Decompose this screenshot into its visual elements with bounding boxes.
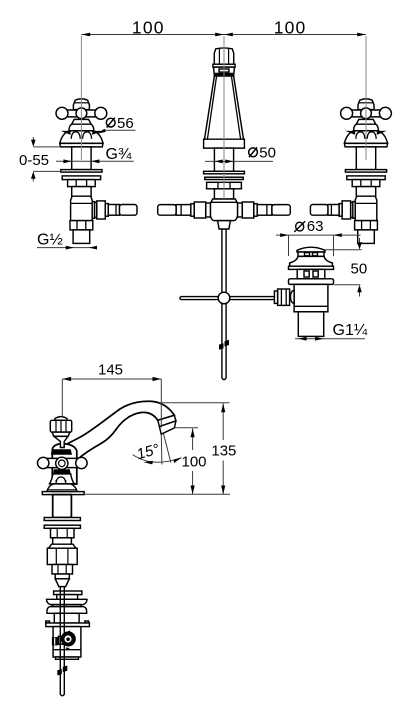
deck extension line xyxy=(84,493,230,495)
label diameter 56 xyxy=(97,115,136,134)
handle left ball xyxy=(38,457,49,468)
tee right arm pipe xyxy=(257,205,272,216)
label G1/2 xyxy=(37,232,97,250)
drain flange lower lip xyxy=(47,607,87,614)
drain plug cylinder xyxy=(57,595,78,600)
angle 15 degrees reference line xyxy=(160,435,163,465)
hex coupling chamfer xyxy=(49,544,76,548)
drain plug cap xyxy=(297,247,325,252)
drain tube xyxy=(294,284,328,311)
pivot ring bottom lug xyxy=(66,648,70,651)
tee body xyxy=(210,199,237,221)
tee right arm washer xyxy=(238,203,243,217)
tee right arm neck xyxy=(254,204,257,216)
threaded shank below deck xyxy=(53,495,72,518)
spout body flare xyxy=(205,76,244,139)
spout tip cap xyxy=(214,48,233,64)
tee left arm nut xyxy=(194,202,206,218)
drain disc 1 xyxy=(289,266,334,269)
spout mouth xyxy=(214,67,235,76)
svg-text:100: 100 xyxy=(181,454,206,471)
tee left arm neck xyxy=(191,204,194,216)
spout aerator slot xyxy=(219,69,229,72)
spout lower shank xyxy=(214,189,233,199)
dimension 135 xyxy=(159,403,237,495)
pivot nut xyxy=(52,637,58,645)
dimension 50 drain height xyxy=(325,238,367,297)
drain body bottom xyxy=(56,657,79,659)
svg-text:G1¼: G1¼ xyxy=(333,322,368,339)
dimension 145 xyxy=(62,362,161,428)
tee bottom block xyxy=(218,221,231,229)
svg-text:50: 50 xyxy=(259,145,276,162)
handle bar xyxy=(40,458,85,467)
dimension 100 left xyxy=(81,18,224,38)
tee left arm washer xyxy=(206,203,211,217)
washer 1 below deck xyxy=(44,518,80,521)
spout tube xyxy=(53,401,174,458)
handle bell arches xyxy=(56,477,66,484)
right valve assembly xyxy=(310,36,391,243)
drain bell flange xyxy=(290,256,333,266)
drain lever washer xyxy=(274,291,277,303)
dimension 100 right xyxy=(224,18,366,38)
left valve assembly xyxy=(56,36,137,243)
svg-text:50: 50 xyxy=(351,261,368,278)
spout tip collar xyxy=(213,64,235,67)
svg-text:63: 63 xyxy=(307,218,324,235)
spout aerator band xyxy=(158,415,176,426)
svg-text:135: 135 xyxy=(211,443,236,460)
spout base collar xyxy=(204,139,245,148)
escutcheon dome xyxy=(47,484,77,492)
handle lower band xyxy=(53,469,71,474)
spout facet lines xyxy=(207,76,240,139)
svg-text:56: 56 xyxy=(117,115,134,132)
pop-up rod vertical xyxy=(222,229,226,380)
handle bell xyxy=(50,474,75,484)
pivot ball xyxy=(64,635,73,644)
svg-text:100: 100 xyxy=(274,18,307,38)
angle arc left arrow xyxy=(144,461,154,465)
pivot clevis xyxy=(59,636,67,644)
pivot center dot xyxy=(66,637,70,641)
tail ring xyxy=(55,574,69,579)
spout aerator face xyxy=(159,421,176,434)
shank segment xyxy=(53,538,72,544)
spout shank xyxy=(214,148,233,171)
svg-text:145: 145 xyxy=(98,362,123,379)
coupling nut xyxy=(52,565,73,575)
lift rod knob dome xyxy=(55,417,67,421)
hex coupling xyxy=(47,548,77,564)
drain neck xyxy=(54,613,79,623)
angle 15 degrees slant line xyxy=(164,434,171,463)
drain flange waist xyxy=(53,605,82,607)
drain plug band xyxy=(298,252,324,256)
pivot ring xyxy=(62,633,74,645)
compression cone xyxy=(55,579,69,587)
svg-text:G½: G½ xyxy=(37,232,63,249)
faucet body column xyxy=(52,444,77,485)
spout mouth shadow xyxy=(215,73,233,76)
spout washer 1 xyxy=(204,171,245,174)
svg-text:100: 100 xyxy=(132,18,165,38)
mounting nut below deck xyxy=(51,528,75,538)
drain tailpipe xyxy=(298,312,323,337)
drain neck with slots xyxy=(297,269,325,278)
label diameter 63 xyxy=(276,218,361,256)
lift rod knob taper xyxy=(54,436,68,447)
drain lever nut xyxy=(278,289,290,305)
handle top band xyxy=(51,449,72,455)
pop-up rod pivot xyxy=(218,292,230,304)
pivot ring top lug xyxy=(66,630,71,634)
label diameter 50 xyxy=(205,145,276,164)
drain disc 2 xyxy=(289,279,334,285)
dimension 100 height xyxy=(175,428,207,495)
rod break mark xyxy=(219,340,229,350)
drain flange upper lip xyxy=(47,599,88,604)
lift rod knob collar xyxy=(52,432,70,436)
drain lever boss xyxy=(291,290,295,303)
lift rod knob barrel xyxy=(50,420,71,432)
pop-up rod horizontal xyxy=(180,297,275,300)
spout centerline xyxy=(223,36,225,199)
drain plug plate xyxy=(54,591,82,595)
tee left arm pipe end xyxy=(158,205,176,216)
handle boss xyxy=(56,457,68,469)
escutcheon base plate xyxy=(42,492,84,495)
tee left arm pipe xyxy=(176,205,191,216)
dimension 0-55 xyxy=(19,137,61,182)
washer 2 below deck xyxy=(44,525,80,528)
spout nut xyxy=(207,182,242,189)
tee right arm nut xyxy=(242,202,254,218)
handle right ball xyxy=(76,457,87,468)
spout washer 2 xyxy=(205,177,243,179)
label G1 1/4 xyxy=(295,322,368,341)
tee right arm pipe end xyxy=(272,205,290,216)
lift rod break mark xyxy=(57,666,67,676)
svg-text:G¾: G¾ xyxy=(106,146,132,163)
svg-text:0-55: 0-55 xyxy=(19,152,49,169)
drain top dish xyxy=(46,621,50,623)
label G3/4 xyxy=(56,146,134,163)
angle arc right arrow xyxy=(173,457,182,463)
drain tube bottom band xyxy=(294,305,328,307)
drain body side view xyxy=(53,627,81,657)
angle 15 degrees arc xyxy=(133,455,182,463)
lift rod lower xyxy=(60,587,64,696)
